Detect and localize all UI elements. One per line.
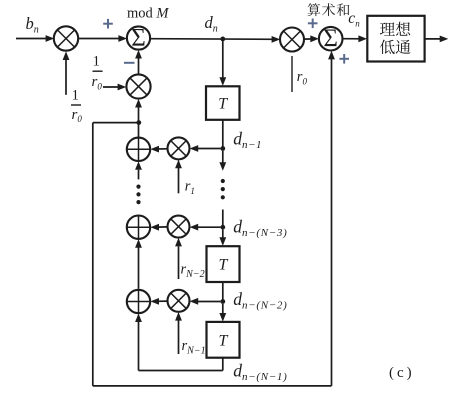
wire adder chain up into X3 xyxy=(138,108,140,123)
coefficient wire r_N-1 into X6 xyxy=(178,321,180,355)
multiplier X2 (r_0 scaler) xyxy=(280,28,304,52)
label fraction 1/r0 (upper) xyxy=(92,54,103,92)
svg-text:mod M: mod M xyxy=(127,5,169,21)
svg-text:1: 1 xyxy=(72,88,79,104)
arrow into sigma2 xyxy=(310,35,319,42)
arrow into X4 bottom xyxy=(175,160,182,169)
adder A2 xyxy=(127,216,150,239)
arrow into sigma1 bottom xyxy=(135,50,142,59)
adder A3 xyxy=(127,290,150,313)
arrow into adder A3 bottom xyxy=(135,313,142,322)
wire X2 to sigma2 xyxy=(304,38,314,40)
svg-text:T: T xyxy=(219,332,229,349)
node d_n junction dot xyxy=(220,37,225,42)
wire feedback left vertical xyxy=(92,123,94,386)
ellipsis dots left column xyxy=(136,185,140,205)
wire d node into T3 xyxy=(222,304,224,313)
arrow into X6 bottom xyxy=(175,312,182,321)
ellipsis dots right column xyxy=(221,179,225,200)
wire T3 output down xyxy=(222,358,224,371)
label arithmetic-sum (suan shu he) xyxy=(308,3,350,16)
wire feedback left segment xyxy=(93,122,139,124)
ideal lowpass filter box xyxy=(367,16,424,62)
arrow ellipsis down xyxy=(219,162,226,171)
wire X1 to sigma1 xyxy=(78,38,122,40)
summing node sigma1 (mod M) xyxy=(127,25,150,52)
arrow into X3 left xyxy=(118,84,127,91)
arrow into adder A3 xyxy=(150,298,159,305)
arrow into X5 xyxy=(190,224,199,231)
wire lowpass output xyxy=(425,38,443,40)
svg-text:Σ: Σ xyxy=(131,25,146,52)
svg-text:Σ: Σ xyxy=(323,25,338,52)
wire X3 to sigma1 bottom xyxy=(138,58,140,75)
wire d node into T2 xyxy=(222,230,224,238)
summing node sigma2 (arithmetic sum) xyxy=(319,25,343,52)
wire feedback right vertical to sigma2 xyxy=(331,58,333,386)
delay element T2 xyxy=(207,246,240,282)
wire input to multiplier xyxy=(16,38,49,40)
wire d_n-1 to X4 xyxy=(195,148,220,150)
arrow into adder A1 bottom xyxy=(135,161,142,170)
wire stub below adder A1 xyxy=(138,170,140,180)
wire bottom feedback up into adder A3 xyxy=(138,322,140,371)
wire T1 output to d_n-1 node xyxy=(222,120,224,149)
delay element T3 xyxy=(207,322,240,358)
wire X6 to adder A3 xyxy=(156,300,168,302)
svg-text:T: T xyxy=(219,257,229,274)
minus sign at sigma1 bottom input xyxy=(124,62,135,64)
wire bottom feedback to adder3 xyxy=(139,370,223,372)
wire d_n-(N-2) to X6 xyxy=(195,301,220,303)
wire d_n-1 down stub xyxy=(222,151,224,163)
multiplier X5 (r_N-2) xyxy=(168,216,190,238)
wire 1/r0 into X1 bottom xyxy=(65,60,67,95)
arrow into adder A2 xyxy=(150,224,159,231)
arrow into multiplier X2 xyxy=(272,36,281,43)
svg-text:T: T xyxy=(218,96,228,113)
svg-text:1: 1 xyxy=(93,54,100,70)
arrow into sigma2 bottom xyxy=(328,51,335,60)
wire X5 to adder A2 xyxy=(156,226,168,228)
wire d_n-(N-3) to X5 xyxy=(195,226,220,228)
wire adder A1 up to junction xyxy=(138,123,140,138)
svg-text:( c ): ( c ) xyxy=(389,365,412,381)
adder A1 xyxy=(127,138,150,161)
node d_n-(N-2) junction dot xyxy=(220,299,225,304)
node d_n-(N-3) junction dot xyxy=(220,225,225,230)
plus sign at sigma2 bottom input xyxy=(339,54,349,64)
arrow into T3 xyxy=(219,313,226,322)
arrow into X1 bottom xyxy=(63,51,70,60)
coefficient wire r_N-2 into X5 xyxy=(178,247,180,280)
multiplier X6 (r_N-1) xyxy=(168,290,190,312)
label ideal lowpass line1 (li xiang) xyxy=(380,22,410,36)
coefficient stub r0 under X2 xyxy=(291,56,293,92)
wire 1/r0 into X3 left xyxy=(103,86,121,88)
label fraction 1/r0 (left) xyxy=(71,88,82,125)
delay element T1 xyxy=(206,86,240,120)
arrow output c_n xyxy=(440,36,449,43)
wire T2 output to d_n-(N-2) node xyxy=(222,282,224,302)
multiplier X3 (1/r0 scaler) xyxy=(126,74,150,98)
arrow into sigma1 xyxy=(118,35,127,42)
plus sign at sigma2 left input xyxy=(308,19,318,29)
node junction feedback takeoff xyxy=(136,120,141,125)
arrow into lowpass box xyxy=(358,35,367,42)
wire adder A3 output up to adder A2 xyxy=(138,246,140,289)
coefficient wire r_1 into X4 xyxy=(178,168,180,194)
wire sigma2 to lowpass box xyxy=(343,38,363,40)
arrow into multiplier X1 xyxy=(46,35,55,42)
label ideal lowpass line2 (di tong) xyxy=(380,40,411,54)
wire sigma1 to multiplier X2 xyxy=(150,38,275,41)
node d_n-1 junction dot xyxy=(220,146,225,151)
arrow into X6 xyxy=(190,298,199,305)
arrow into X5 bottom xyxy=(175,238,182,247)
arrow into T2 xyxy=(219,237,226,246)
wire resume to d_N-3 node xyxy=(222,210,224,228)
arrow into X4 xyxy=(190,145,199,152)
arrow into adder A1 xyxy=(150,146,159,153)
arrow into T1 xyxy=(219,77,226,86)
wire feedback bottom horizontal xyxy=(93,385,332,387)
plus sign at sigma1 left input xyxy=(103,19,113,29)
multiplier X4 (r_1) xyxy=(168,137,190,159)
arrow into adder A2 bottom xyxy=(135,239,142,248)
wire d_n down to T1 xyxy=(222,41,224,78)
wire X4 to adder A1 xyxy=(156,148,168,150)
arrow into X3 bottom xyxy=(135,99,142,108)
multiplier X1 (input scaler) xyxy=(54,26,78,50)
